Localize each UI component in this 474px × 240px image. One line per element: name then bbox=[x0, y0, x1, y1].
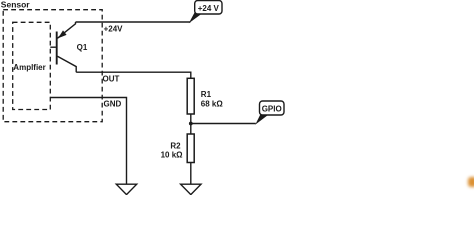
svg-text:+24V: +24V bbox=[104, 24, 124, 33]
orange blob artifact at right edge bbox=[468, 177, 474, 187]
node +24 V flag tail bbox=[189, 13, 202, 24]
wire R2 top lead bbox=[190, 124, 192, 135]
svg-text:+24 V: +24 V bbox=[198, 4, 220, 13]
svg-text:R2: R2 bbox=[170, 141, 181, 150]
svg-text:GPIO: GPIO bbox=[262, 105, 282, 114]
svg-text:Q1: Q1 bbox=[77, 43, 88, 52]
amplifier box (dashed) bbox=[13, 22, 51, 109]
svg-text:R1: R1 bbox=[201, 90, 212, 99]
junction node dot bbox=[189, 122, 193, 126]
wire GND bbox=[50, 98, 126, 185]
resistor R1 body bbox=[187, 78, 194, 114]
resistor R2 body bbox=[187, 134, 194, 163]
wire R1 bottom lead bbox=[190, 114, 192, 124]
transistor Q1 emitter bbox=[57, 22, 75, 38]
svg-text:GND: GND bbox=[104, 99, 122, 108]
transistor Q1 emitter arrow (PNP) bbox=[58, 30, 67, 38]
svg-text:Amplfier: Amplfier bbox=[13, 63, 45, 72]
ground (sensor GND) bbox=[116, 184, 136, 194]
svg-text:68 kΩ: 68 kΩ bbox=[201, 99, 224, 108]
node GPIO flag box bbox=[260, 101, 285, 115]
sensor box (dashed) bbox=[3, 10, 102, 122]
wire OUT bbox=[76, 72, 191, 78]
ground (under R2) bbox=[181, 184, 201, 194]
wire junction to GPIO bbox=[191, 123, 256, 125]
node GPIO flag tail bbox=[255, 114, 267, 125]
node +24 V flag box bbox=[195, 1, 222, 15]
transistor Q1 base bar bbox=[56, 32, 58, 65]
wire base stub Q1 bbox=[50, 46, 56, 48]
svg-text:OUT: OUT bbox=[103, 74, 120, 83]
svg-text:10 kΩ: 10 kΩ bbox=[161, 150, 184, 159]
wire +24V rail bbox=[76, 21, 191, 23]
wire R2 bottom lead bbox=[190, 163, 192, 185]
transistor Q1 collector bbox=[57, 56, 76, 72]
svg-text:Sensor: Sensor bbox=[1, 0, 31, 10]
